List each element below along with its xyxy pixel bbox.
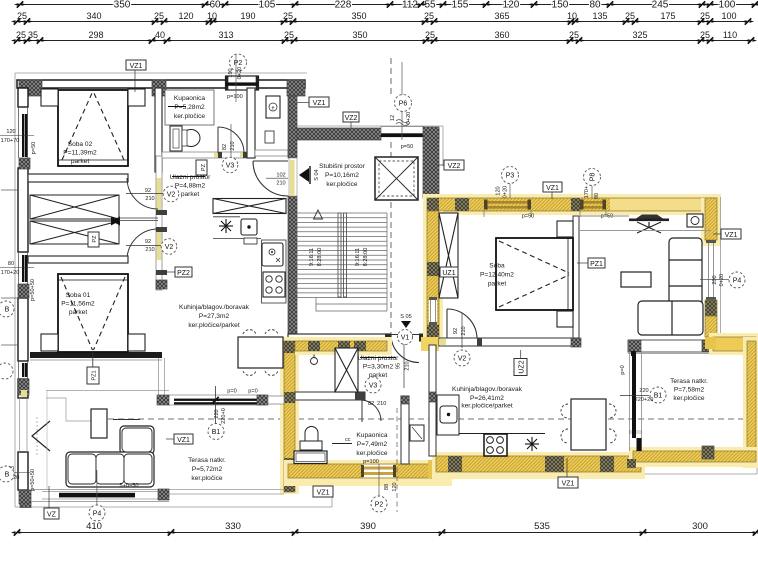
elevator U1 [375, 157, 418, 200]
node V2 (unit2) [454, 350, 470, 366]
door D2 to soba01 [127, 229, 158, 260]
wardrobe unit2 (tall) [439, 213, 458, 298]
svg-text:245: 245 [652, 0, 669, 11]
unit2 bathroom label [356, 432, 387, 457]
bed soba unit2 [496, 238, 573, 310]
wire: terrace boundary step [46, 398, 91, 421]
wall: vestibule top wall (hatched) [297, 128, 381, 140]
svg-text:parket: parket [71, 158, 89, 165]
wall: unit2 north yellow wall [423, 194, 721, 220]
svg-text:P8: P8 [590, 173, 597, 182]
bed soba01 [58, 274, 128, 352]
svg-text:92: 92 [145, 188, 151, 194]
wall: soba02 right wall [155, 88, 162, 172]
stairs [296, 213, 387, 298]
svg-text:88: 88 [384, 484, 390, 490]
svg-text:P=4,88m2: P=4,88m2 [175, 183, 206, 190]
svg-text:Kupaonica: Kupaonica [174, 95, 205, 102]
svg-text:P3: P3 [506, 173, 515, 180]
svg-text:VZ2: VZ2 [345, 115, 358, 122]
label VZ1 (left terrace) [174, 434, 193, 444]
svg-text:VZ: VZ [47, 512, 57, 519]
svg-text:P=7,58m2: P=7,58m2 [674, 387, 705, 394]
dining table left unit [238, 337, 283, 368]
svg-text:Ulazni prostor: Ulazni prostor [170, 174, 211, 181]
door: unit2 bathroom door [362, 400, 381, 422]
wall: unit2 west yellow wall [280, 337, 299, 494]
svg-text:B: B [5, 472, 10, 479]
svg-text:92: 92 [145, 239, 151, 245]
svg-text:B1: B1 [212, 429, 221, 436]
svg-text:cc: cc [345, 437, 351, 443]
node V3 unit2 [365, 377, 381, 393]
entry room label [170, 174, 211, 198]
svg-text:ker.pločice: ker.pločice [191, 475, 222, 482]
svg-text:ker.pločice/parket: ker.pločice/parket [461, 403, 512, 410]
svg-text:parket: parket [181, 191, 199, 198]
unit2 bathtub [294, 451, 327, 464]
svg-text:Kuhinja/blagov./boravak: Kuhinja/blagov./boravak [179, 304, 250, 311]
svg-text:82: 82 [222, 144, 228, 150]
stair landing [316, 298, 387, 311]
left terrace south edge thin lines [169, 489, 284, 491]
svg-text:P=5,28m2: P=5,28m2 [174, 104, 205, 111]
svg-text:220: 220 [639, 388, 648, 394]
svg-text:350: 350 [352, 30, 367, 40]
wire: living/kitchen divider [158, 358, 160, 395]
svg-text:p=50: p=50 [31, 142, 37, 155]
svg-text:V2: V2 [165, 244, 174, 251]
svg-text:VZ1: VZ1 [725, 232, 738, 239]
svg-text:102: 102 [276, 173, 285, 179]
svg-text:25: 25 [284, 30, 294, 40]
stair direction arrow [314, 210, 323, 219]
wall: soba2 east wall [573, 216, 579, 345]
svg-text:UZ2: UZ2 [519, 360, 526, 373]
svg-text:parket: parket [488, 281, 506, 288]
svg-text:0+20: 0+20 [406, 112, 412, 125]
label PZ1 rotated near bath wall [196, 160, 207, 175]
svg-text:350: 350 [114, 0, 131, 11]
svg-text:ker.pločice/parket: ker.pločice/parket [188, 322, 239, 329]
svg-text:155: 155 [452, 0, 469, 11]
node B1 (terrace) [650, 387, 666, 403]
wall: soba02 south wall [28, 174, 128, 182]
towel rail [332, 443, 352, 445]
svg-text:210: 210 [377, 401, 386, 407]
kitchen room label unit2 [452, 386, 523, 410]
svg-text:150: 150 [552, 0, 569, 11]
svg-text:9:16:11: 9:16:11 [309, 248, 315, 266]
svg-text:0+20: 0+20 [237, 67, 243, 80]
svg-text:80: 80 [589, 0, 601, 11]
svg-text:Kuhinja/blagov./boravak: Kuhinja/blagov./boravak [452, 386, 523, 393]
vertical dim at window [215, 386, 217, 432]
svg-text:Ulazni prostor: Ulazni prostor [358, 355, 399, 362]
label VZ2 (stair east wall) [444, 160, 464, 170]
svg-text:S 04: S 04 [314, 169, 320, 181]
wall: kitchen west wall unit2 [429, 345, 436, 456]
kitchen counter squares [241, 219, 257, 235]
svg-text:350: 350 [351, 11, 366, 21]
ceiling lamp symbol [311, 358, 318, 365]
svg-text:25: 25 [700, 30, 710, 40]
hatch blocks on left wall [18, 158, 31, 504]
svg-text:100: 100 [719, 0, 736, 11]
svg-text:175: 175 [660, 11, 675, 21]
node P6 [395, 95, 412, 112]
svg-text:B1: B1 [654, 393, 663, 400]
svg-text:p=0: p=0 [620, 365, 626, 375]
svg-text:390: 390 [360, 521, 376, 532]
svg-text:P=11,39m2: P=11,39m2 [63, 150, 97, 157]
svg-text:e: e [272, 106, 275, 112]
washer niche [410, 425, 424, 441]
svg-text:Kupaonica: Kupaonica [356, 432, 387, 439]
kitchen room label [179, 304, 250, 329]
svg-text:Terasa natkr.: Terasa natkr. [670, 378, 708, 385]
wall: left exterior wall segments [18, 88, 28, 490]
wire: terrace overhang right [600, 337, 757, 474]
terrace room label [670, 378, 708, 402]
label PZ1 under soba01 bed [92, 352, 94, 367]
svg-text:p=50: p=50 [522, 214, 535, 220]
svg-text:95: 95 [396, 363, 402, 369]
svg-text:82: 82 [368, 401, 374, 407]
svg-text:5+0=50: 5+0=50 [120, 483, 139, 489]
door: bathroom V3 [218, 127, 244, 153]
svg-text:p=50+50: p=50+50 [30, 279, 36, 301]
label PZ2 small (wardrobe) [88, 232, 99, 247]
svg-text:200: 200 [712, 275, 718, 284]
svg-text:110: 110 [723, 30, 737, 40]
node V3 [222, 157, 238, 173]
svg-text:135: 135 [592, 11, 607, 21]
svg-text:p=50+50: p=50+50 [30, 469, 36, 491]
svg-text:120: 120 [6, 129, 15, 135]
svg-text:Soba 01: Soba 01 [66, 292, 91, 299]
svg-text:PZ1: PZ1 [590, 261, 603, 268]
svg-text:PZ: PZ [201, 163, 207, 171]
svg-text:190: 190 [228, 68, 234, 77]
svg-text:535: 535 [534, 521, 550, 532]
node V1 [398, 330, 413, 345]
coffee table unit2 [621, 272, 651, 287]
svg-text:VZ1: VZ1 [562, 481, 575, 488]
svg-text:40: 40 [155, 30, 165, 40]
svg-text:313: 313 [218, 30, 233, 40]
wardrobe row 1 [30, 195, 119, 244]
sink asterisk unit2 [525, 437, 539, 451]
door: unit1 entrance door [253, 161, 288, 196]
label UZ2 (rotated) [520, 350, 522, 358]
svg-text:365: 365 [494, 11, 509, 21]
svg-text:8:28:00: 8:28:00 [317, 248, 323, 267]
svg-text:Soba: Soba [489, 263, 505, 270]
svg-text:0+20: 0+20 [719, 274, 725, 287]
svg-text:25: 25 [283, 11, 293, 21]
wall: top exterior wall [17, 76, 305, 96]
kitchen counter outline [213, 216, 240, 218]
svg-text:VZ1: VZ1 [130, 63, 143, 70]
node B1 (left terrace) [208, 424, 224, 440]
svg-text:VZ1: VZ1 [177, 437, 190, 444]
svg-text:8:28:00: 8:28:00 [363, 248, 369, 267]
node P6 leader [401, 62, 403, 140]
sofa unit2 (L-shape) [638, 238, 703, 335]
svg-text:PZ2: PZ2 [177, 270, 190, 277]
svg-text:12: 12 [390, 115, 396, 121]
svg-text:25: 25 [425, 30, 435, 40]
svg-text:25: 25 [700, 11, 710, 21]
unit2 entry [358, 355, 399, 379]
wall: unit2 bathroom south yellow band [284, 460, 452, 486]
svg-text:ker.pločice: ker.pločice [356, 450, 387, 457]
wall: terrace east yellow band [743, 337, 758, 468]
svg-text:25: 25 [16, 30, 26, 40]
kitchen top counter [213, 199, 286, 214]
svg-text:120: 120 [392, 482, 398, 491]
svg-text:25: 25 [424, 11, 434, 21]
window: vestibule top window [381, 127, 425, 151]
door: soba2 door [447, 309, 477, 338]
svg-text:P=11,56m2: P=11,56m2 [61, 301, 95, 308]
door V1 to unit2 entry [391, 335, 419, 363]
node V2 (corridor lower) [161, 239, 177, 255]
lamp box unit2 [687, 214, 703, 227]
svg-text:55: 55 [424, 0, 436, 11]
wall: niche south [255, 150, 288, 156]
wall: terrace north wall (white) + NE yellow segment [628, 333, 758, 355]
svg-text:210: 210 [145, 196, 154, 202]
svg-text:UZ1: UZ1 [442, 270, 455, 277]
label VZ2 (vestibule top) [343, 112, 359, 122]
wire: left unit overhang [15, 73, 332, 507]
svg-text:P2: P2 [234, 60, 243, 67]
svg-text:170+70: 170+70 [1, 138, 20, 144]
svg-text:25: 25 [154, 11, 164, 21]
dining table unit2 [571, 399, 606, 450]
wall: bathroom south wall [162, 152, 247, 158]
kitchen-terrace window band [157, 395, 284, 405]
svg-text:80: 80 [8, 261, 14, 267]
svg-text:100: 100 [721, 11, 736, 21]
bathroom label box left unit [165, 90, 214, 125]
svg-text:228: 228 [335, 0, 352, 11]
label PZ2 box [175, 267, 192, 277]
sofa left unit [66, 426, 154, 487]
svg-text:220+0: 220+0 [221, 408, 227, 424]
svg-text:210: 210 [145, 247, 154, 253]
label VZ1 (unit2 bath south) [313, 486, 333, 497]
label UZ1 [440, 267, 458, 277]
svg-text:Soba 02: Soba 02 [68, 141, 93, 148]
coffee table left unit [91, 409, 107, 438]
svg-text:VZ2: VZ2 [448, 163, 461, 170]
section marker S04 (speaker symbol) [299, 168, 309, 182]
node P2 (unit2 south) [378, 464, 380, 496]
label VZ bottom left [48, 486, 50, 508]
wall: terrace south yellow band [627, 446, 758, 468]
terrace sliding door [629, 351, 642, 451]
svg-text:ker.pločice: ker.pločice [174, 113, 205, 120]
door dims left corridor [145, 188, 155, 253]
night stands soba02 [41, 89, 58, 106]
svg-text:P=10,16m2: P=10,16m2 [325, 172, 359, 179]
svg-text:Terasa natkr.: Terasa natkr. [188, 457, 226, 464]
label VZ1 (unit2 kitchen south) [558, 477, 578, 488]
svg-text:VZ1: VZ1 [313, 100, 326, 107]
svg-text:V2: V2 [167, 192, 176, 199]
svg-text:V3: V3 [369, 383, 378, 390]
svg-text:190: 190 [240, 11, 255, 21]
svg-text:340: 340 [86, 11, 101, 21]
wardrobe unit2 entry [335, 348, 358, 392]
node P2 (top) [230, 54, 247, 71]
svg-text:170+: 170+ [584, 186, 590, 199]
svg-text:112: 112 [402, 0, 418, 11]
wall: bathroom/niche divider [247, 88, 255, 158]
wall: soba2 south wall [439, 338, 581, 347]
railing left terrace [20, 483, 169, 508]
svg-text:120: 120 [503, 0, 520, 11]
stove left unit [263, 272, 285, 297]
svg-text:210: 210 [405, 361, 411, 370]
node V2 (corridor upper) [163, 186, 179, 202]
svg-text:p=50: p=50 [401, 144, 414, 150]
svg-text:B: B [5, 307, 10, 314]
kitchen unit2 counter [437, 395, 459, 435]
svg-text:170+20: 170+20 [1, 270, 20, 276]
svg-text:p=0: p=0 [248, 389, 258, 395]
svg-text:P=27,3m2: P=27,3m2 [199, 313, 230, 320]
svg-text:220+20: 220+20 [635, 397, 654, 403]
svg-text:80: 80 [594, 193, 600, 199]
svg-text:92: 92 [453, 328, 459, 334]
svg-text:P2: P2 [375, 502, 384, 509]
stove unit2 [484, 434, 507, 456]
svg-text:PZ1: PZ1 [92, 370, 98, 380]
window: left wall window 3 (balcony door upper) [19, 361, 28, 379]
svg-text:S 05: S 05 [400, 314, 412, 320]
svg-text:parket: parket [69, 309, 87, 316]
stair step numbers [309, 248, 369, 267]
svg-text:P4: P4 [93, 511, 102, 518]
door D1 to soba02 [127, 178, 158, 209]
svg-text:p=50: p=50 [601, 214, 614, 220]
bed soba02 [58, 90, 128, 166]
svg-text:p=100: p=100 [227, 94, 243, 100]
label PZ1 unit2 [588, 258, 605, 268]
svg-text:P6: P6 [399, 101, 408, 108]
window in top wall (kupaonica) [226, 76, 259, 90]
wall: unit2 soba west yellow wall [423, 211, 443, 341]
svg-text:330: 330 [225, 521, 241, 532]
svg-text:120: 120 [496, 186, 502, 195]
washing machine + toilet [170, 126, 200, 151]
left margin circles [0, 301, 14, 317]
window: left wall window 1 [19, 107, 28, 158]
svg-text:VZ1: VZ1 [546, 185, 559, 192]
svg-text:ker.pločice: ker.pločice [326, 181, 357, 188]
svg-text:300: 300 [692, 521, 708, 532]
wall: bathroom north wall unit2 [295, 392, 365, 400]
svg-text:P=26,41m2: P=26,41m2 [470, 395, 504, 402]
svg-text:V1: V1 [401, 335, 410, 342]
wall: stairwell south wall [288, 334, 390, 341]
entry door dims unit2 [403, 344, 405, 388]
kitchen sink asterisk [219, 219, 233, 233]
wall: unit2 kitchen south yellow band [432, 452, 645, 479]
wall: soba01 north wall [28, 256, 128, 263]
wall: unit2 entry north yellow band [295, 337, 439, 355]
left margin small dims [1, 129, 37, 491]
svg-text:9:16:11: 9:16:11 [355, 248, 361, 266]
wall: soba01 south wall (thick black) [30, 352, 162, 358]
TV unit2 [636, 215, 663, 219]
svg-text:210: 210 [276, 181, 285, 187]
node P3 [502, 167, 519, 184]
svg-text:p=100: p=100 [363, 459, 379, 465]
wall: unit2 east yellow wall upper [701, 198, 721, 337]
svg-text:P=5,72m2: P=5,72m2 [192, 466, 223, 473]
svg-text:325: 325 [632, 30, 647, 40]
svg-text:25: 25 [625, 11, 635, 21]
unit2 toilet [300, 427, 322, 451]
label VZ1 (stair west wall) [309, 97, 329, 107]
svg-text:p=0: p=0 [227, 389, 237, 395]
svg-text:P=3,30m2: P=3,30m2 [363, 364, 394, 371]
node P8 (rotated) [584, 169, 601, 186]
svg-text:V2: V2 [458, 356, 467, 363]
svg-text:P=12,40m2: P=12,40m2 [480, 272, 514, 279]
svg-text:P=7,49m2: P=7,49m2 [357, 441, 388, 448]
svg-text:0+20: 0+20 [503, 186, 509, 199]
svg-text:298: 298 [88, 30, 103, 40]
label VZ1 (top wall) [126, 60, 146, 70]
wall: corridor east wall with yellow thresholds [156, 156, 167, 290]
node P4 (unit2 east) [729, 272, 745, 288]
svg-text:360: 360 [494, 30, 509, 40]
hatch blocks on top wall [19, 80, 42, 96]
svg-text:120: 120 [178, 11, 193, 21]
label VZ1 (unit2 east) [721, 229, 741, 239]
svg-text:60: 60 [209, 0, 221, 11]
svg-text:ker.pločice: ker.pločice [673, 395, 704, 402]
svg-text:25: 25 [569, 30, 579, 40]
svg-text:410: 410 [86, 521, 102, 532]
svg-text:Stubišni prostor: Stubišni prostor [319, 163, 366, 170]
window: left wall window 2 [19, 252, 28, 284]
left terrace label [188, 457, 226, 482]
boiler in niche [266, 96, 280, 118]
wall: stairwell west wall (hatched) [288, 96, 297, 343]
svg-text:P4: P4 [733, 278, 742, 285]
wire: stair vestibule overhang [288, 126, 443, 166]
node P4 bottom left [96, 470, 98, 505]
svg-text:220: 220 [214, 409, 220, 418]
svg-text:VZ1: VZ1 [317, 490, 330, 497]
wall: stairwell east hatched wall [423, 127, 439, 198]
svg-text:PZ: PZ [92, 235, 98, 243]
svg-text:105: 105 [259, 0, 276, 11]
wall: unit2 bath/kitchen divider [401, 396, 409, 464]
label VZ1 (unit2 top wall) [543, 182, 562, 192]
svg-text:V3: V3 [226, 163, 235, 170]
stair rails [338, 213, 347, 297]
door: balcony door left wall (leaf) [32, 421, 50, 451]
